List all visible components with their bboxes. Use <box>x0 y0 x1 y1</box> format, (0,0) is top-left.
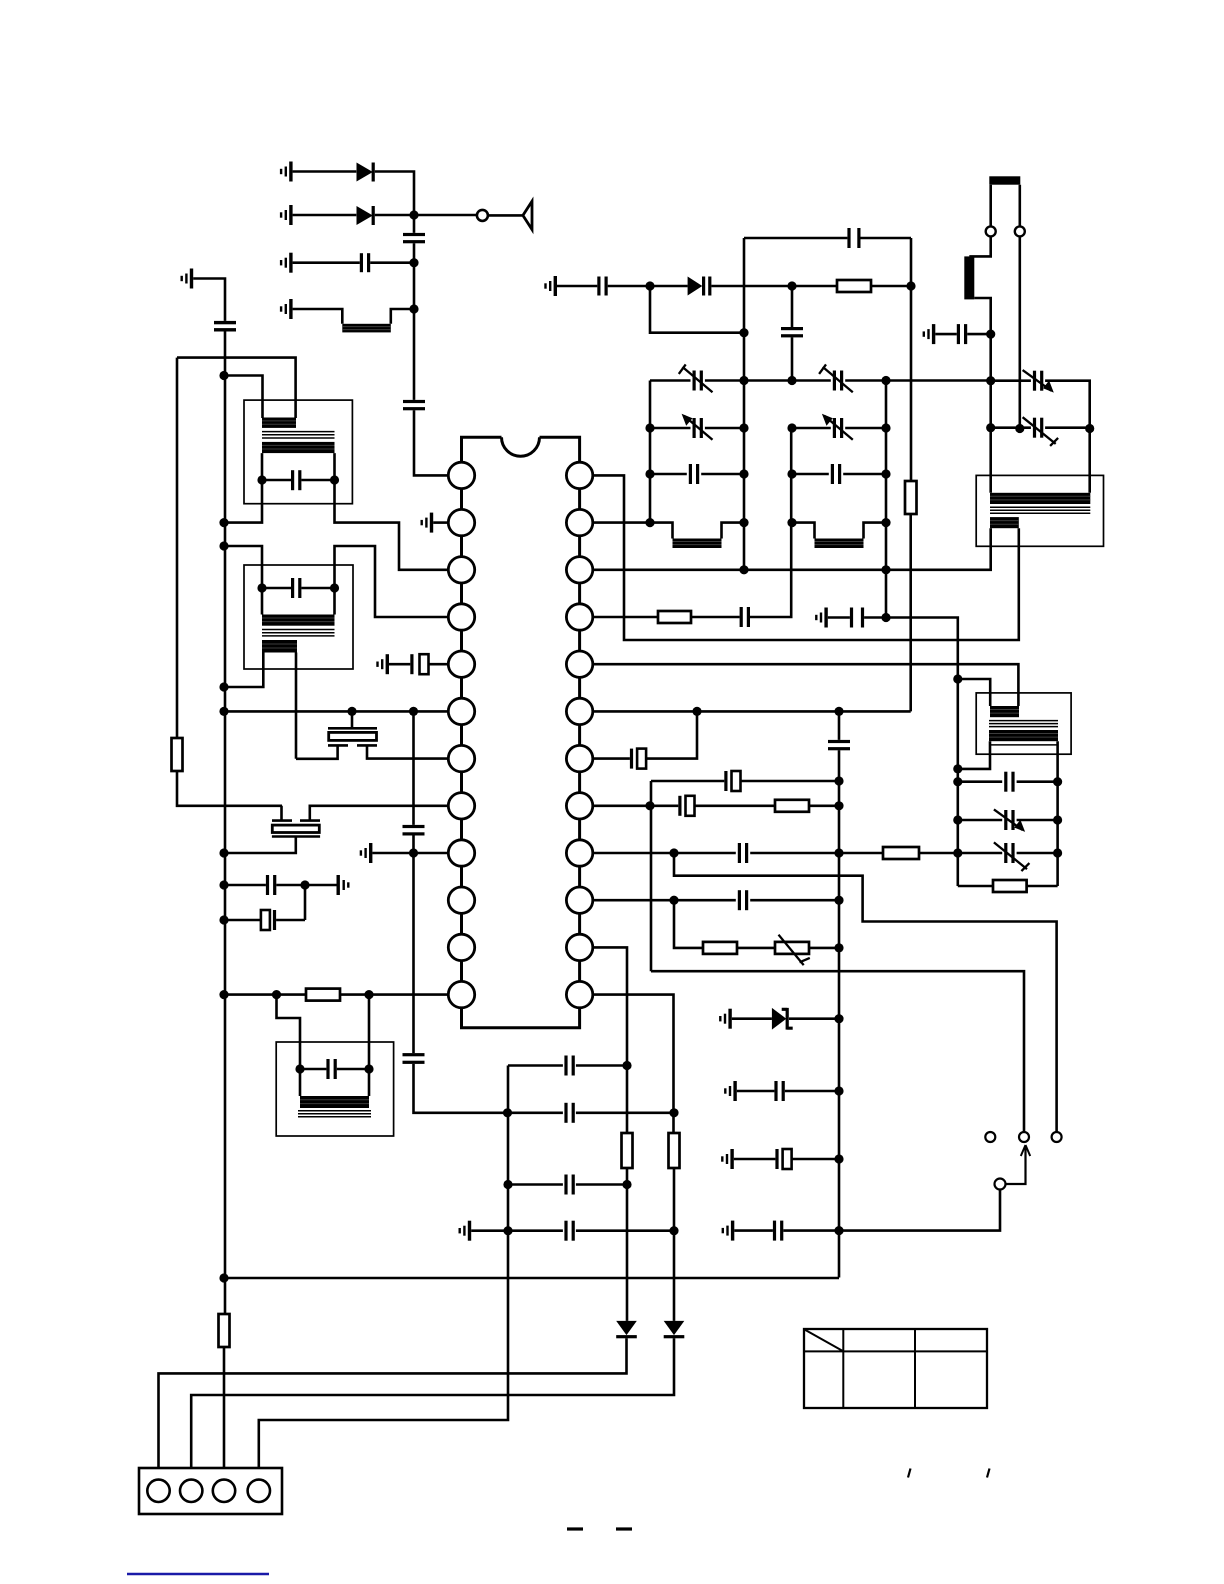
blue underline <box>127 1573 269 1576</box>
wire col911 top <box>910 238 913 481</box>
capacitor C13 row286 <box>597 277 607 296</box>
crystal X2 legs <box>282 806 449 821</box>
IFT3 small coil <box>990 517 1019 528</box>
wire pin5R row <box>593 664 1019 706</box>
wire col744 <box>743 238 746 570</box>
resistor R8 row853 <box>883 847 919 859</box>
trimmer CT6 <box>1023 417 1059 446</box>
wire row286 left <box>557 285 597 288</box>
wire IFT5 stubs <box>300 1069 369 1096</box>
wire G14 to C28 <box>737 1090 775 1093</box>
IFT1 primary coil <box>262 418 296 428</box>
wire IFT1 right out to pin3L <box>335 480 449 570</box>
wire G7 to pin9L <box>372 852 448 855</box>
IFT4 thick winding <box>989 730 1058 745</box>
capacitor C34 rowD <box>564 1221 574 1241</box>
wire col958 <box>956 679 959 886</box>
wire row570 pin3R <box>593 528 991 570</box>
wire row853 right <box>958 852 1058 855</box>
capacitor C2 row3 <box>360 253 370 272</box>
IC U1 body <box>462 437 580 1027</box>
capacitor C21 col839 <box>828 740 850 750</box>
wire col839 cap branch <box>838 711 841 1277</box>
ground G12 row334 <box>923 324 936 344</box>
wire row1278 <box>224 1277 839 1280</box>
wire D3 to connector1 <box>159 1338 627 1479</box>
wire G13 to ZD1 <box>732 1017 772 1020</box>
trimmer CT8 <box>994 842 1030 871</box>
IFT3 thin winding <box>990 507 1090 513</box>
wire G6 to pin2L <box>433 521 448 524</box>
wire col674 lower <box>673 1168 676 1321</box>
crystal X1 <box>328 728 377 745</box>
FM antenna bar <box>989 176 1020 184</box>
wire C20 to col697 <box>646 711 697 758</box>
wire pin8R row <box>593 804 775 807</box>
wire IFT5 left feed <box>277 995 301 1069</box>
ground G2 row2 <box>280 205 293 225</box>
IFT1 secondary thick winding <box>262 442 335 453</box>
zener ZD1 <box>772 1008 793 1030</box>
wire G15 to C29 <box>734 1158 776 1161</box>
capacitor C3 on col414 <box>403 400 425 410</box>
wire IFT1 cap row <box>262 479 335 482</box>
wire row1 to col414 <box>375 172 414 216</box>
wire col224 to connector <box>223 1347 226 1480</box>
IFT5 thick winding <box>300 1096 369 1108</box>
wire C18 to col791 <box>750 428 791 617</box>
capacitor C32 rowB <box>564 1103 574 1123</box>
wire row711 <box>224 710 448 713</box>
capacitor C20 electrolytic pin7R <box>630 749 646 769</box>
wire R9 to RV1 <box>737 947 775 950</box>
ground G7 pin9L <box>360 843 373 863</box>
ground G9 row885 <box>337 875 350 895</box>
wire FM row428 <box>991 426 1090 429</box>
wire node225 to IFT2 <box>225 546 262 588</box>
wire C19 to col958 <box>864 618 958 680</box>
trimmer CT1 <box>679 364 713 392</box>
wire pin12R col674 <box>593 995 674 1133</box>
IFT2 thick winding <box>262 615 335 626</box>
wire G12 to C26 <box>935 333 957 336</box>
diode D2 <box>357 206 375 225</box>
resistor R7 row806 <box>775 800 809 812</box>
capacitor C29 electrolytic row1159 <box>775 1149 791 1169</box>
capacitor C19 row617 <box>850 608 864 628</box>
wire FM row381 <box>991 381 1090 493</box>
resistor R4 row286 <box>837 280 871 292</box>
IFT1 secondary thin winding <box>262 432 335 438</box>
resistor R2 row995 <box>306 989 340 1001</box>
wire IFT2 cap row <box>262 587 335 590</box>
wire col414 seg1 <box>413 215 416 309</box>
capacitor C8 col414 <box>403 1053 425 1064</box>
IFT3 shield box <box>976 475 1103 546</box>
capacitor C26 row334 <box>957 324 967 344</box>
resistor R5 col911 <box>905 481 917 514</box>
wire row781 <box>651 780 839 783</box>
resistor R12 col674 <box>669 1133 680 1168</box>
wire row3 right <box>370 261 414 264</box>
wire row782 <box>958 780 1058 783</box>
wire row995 right <box>340 993 448 996</box>
wire contact2 down <box>1018 236 1021 428</box>
wire D4 to connector2 <box>191 1338 674 1479</box>
capacitor C24 row853 <box>738 843 748 863</box>
IC U1 pins right 24-13 <box>566 462 592 1008</box>
wire col991 segs <box>989 334 992 493</box>
wire coil row tank2 left <box>792 523 815 539</box>
capacitor C7 col414 <box>403 825 425 836</box>
wire row428 tank1 <box>650 427 744 430</box>
mark dash1 <box>567 1527 583 1530</box>
capacitor C10 row885 <box>266 875 276 895</box>
resistor R1 col177 <box>172 738 183 771</box>
diode D3 <box>616 1321 637 1338</box>
wire row2 to jack <box>375 214 477 217</box>
trimmer CT7 arrow <box>994 809 1025 832</box>
wire row995 left <box>224 993 306 996</box>
table <box>804 1329 987 1408</box>
wire pin9R row <box>593 852 883 855</box>
wire row1 <box>293 170 357 173</box>
wire C26 to col991 <box>967 333 991 336</box>
wire X2 bottom stub <box>224 837 296 854</box>
IFT2 thin winding <box>262 630 335 636</box>
wire row1231 to switch arm <box>839 1190 1000 1231</box>
capacitor C25 row901 <box>738 890 748 910</box>
capacitor C4 on col225 <box>214 321 236 332</box>
capacitor C33 rowC <box>564 1175 574 1195</box>
capacitor C12 in IFT5 <box>326 1059 336 1079</box>
ground G6 pin2L <box>421 513 434 533</box>
wire C29 to col839 <box>792 1158 839 1161</box>
wire rowA 1066 <box>508 1064 627 1067</box>
capacitor C16 row474 <box>689 464 699 484</box>
wire R4 to col911 <box>871 285 911 288</box>
IFT4 shield box <box>976 693 1071 754</box>
trimmer CT2 <box>819 364 853 392</box>
wire pin6R row <box>593 710 911 713</box>
connector J1 <box>139 1468 282 1514</box>
ground G13 zener row <box>719 1009 732 1029</box>
wire left rail col177 <box>176 358 179 738</box>
wire IFT4 left out <box>958 741 990 769</box>
ground G10 row286 <box>544 276 557 296</box>
resistor R6 row617 <box>658 611 691 623</box>
mark tick2 <box>987 1469 990 1478</box>
wire pin5R junction col958 <box>958 679 990 706</box>
capacitor C14 col792 <box>781 327 803 337</box>
resistor R3 col224 <box>219 1314 230 1347</box>
node open contact <box>477 210 488 221</box>
wire X1 legs <box>296 745 448 758</box>
IFT3 thick winding <box>990 493 1090 504</box>
wire L2 right <box>722 523 745 539</box>
capacitor C9 electrolytic pin5L <box>410 654 428 674</box>
wire row428 tank2 <box>792 427 886 430</box>
IC U1 pins left 1-12 <box>448 462 474 1008</box>
inductor L1 row4 <box>342 324 391 333</box>
mark dash2 <box>616 1527 632 1530</box>
wire row885 <box>224 884 337 887</box>
ground G15 row1159 <box>721 1149 734 1169</box>
wire varactor to resistor <box>711 285 837 288</box>
wire IFT5 right feed <box>368 995 371 1069</box>
varistor RV1 row948 <box>775 935 810 965</box>
diode D4 <box>664 1321 685 1338</box>
wire G11 to C19 <box>828 616 850 619</box>
wire row474 tank2 <box>792 473 886 476</box>
wire row380 to FM <box>886 379 991 382</box>
ground G11 row617 <box>815 608 828 628</box>
IFT2 shield box <box>244 565 353 669</box>
wire rowC 1185 <box>508 1183 627 1186</box>
node ant contact2 <box>1015 226 1025 236</box>
wire contact1 to coil <box>969 236 990 256</box>
wire rowB 1113 <box>508 1112 675 1115</box>
wire col305 <box>304 885 307 920</box>
wire L4 to col991 <box>974 298 990 334</box>
earphone EP1 <box>523 201 532 229</box>
varactor VD1 <box>688 277 712 296</box>
wire row920 <box>224 919 305 922</box>
wire col674 branch <box>674 900 703 948</box>
wire RV1 to col839 <box>809 947 839 950</box>
wire col508 <box>259 1066 508 1480</box>
resistor R9 row948 <box>703 942 737 954</box>
trimmer CT3 arrow <box>682 414 713 440</box>
ground G3 row3 <box>280 253 293 273</box>
trimmer CT5 arrow <box>1023 370 1054 393</box>
wire rowD 1231 <box>471 1229 674 1232</box>
resistor R11 col627 <box>622 1133 633 1168</box>
capacitor C31 rowA <box>564 1056 574 1076</box>
node switch contact2 <box>1019 1132 1029 1142</box>
wire switch feed poly <box>674 853 1057 1132</box>
capacitor C27 row782 <box>1004 772 1014 792</box>
wire row820 <box>958 819 1058 822</box>
wire IFT1 top link <box>177 358 296 418</box>
node switch arm pivot <box>995 1179 1006 1190</box>
wire IFT2 winding stubs <box>262 588 335 615</box>
capacitor C15 row238 <box>847 228 860 248</box>
IFT4 thin winding <box>989 721 1058 727</box>
node switch contact1 <box>985 1132 995 1142</box>
capacitor C5 in IFT1 <box>291 470 301 490</box>
wire ZD1 to col839 <box>789 1017 839 1020</box>
ground G17 rowD <box>459 1221 472 1241</box>
wire IFT1 winding stubs <box>262 453 335 480</box>
wire G8 to C9 <box>389 663 410 666</box>
wire row380 tank1 <box>650 379 744 382</box>
wire IFT4 right out <box>1056 741 1059 886</box>
wire col414 lower <box>414 853 508 1113</box>
capacitor C18 row617 <box>740 607 750 627</box>
mark tick1 <box>908 1469 911 1478</box>
capacitor C23 electrolytic row806 <box>678 796 694 816</box>
wire col225 rail <box>224 332 227 1315</box>
wire IFT2 right up to pin4L <box>335 546 449 617</box>
wire pin2R coil row <box>593 523 673 539</box>
wire col650 tank1 <box>649 381 652 523</box>
wire col627 lower <box>626 1168 629 1321</box>
wire C9 to pin5L <box>429 663 449 666</box>
capacitor C6 in IFT2 <box>291 578 301 598</box>
wire col651 <box>650 781 653 971</box>
wire col177 to crystal leg <box>177 771 282 806</box>
crystal X1 stub <box>351 711 354 727</box>
capacitor C1 on col414 <box>403 233 425 243</box>
ground G14 row1091 <box>724 1081 737 1101</box>
wire R8 to col958 <box>919 852 958 855</box>
wire antenna legs <box>991 185 1020 227</box>
ground G1 row1 <box>280 162 293 182</box>
wire IFT5 cap row <box>300 1068 369 1071</box>
resistor R10 row886 <box>993 880 1027 892</box>
crystal X2 <box>272 821 320 837</box>
wire top row238 <box>744 237 911 240</box>
wire L3 right <box>864 523 887 539</box>
wire pin7R to C20 <box>593 757 630 760</box>
wire IFT2 small coil right to crystal1 <box>295 653 298 759</box>
wire contact to earphone <box>488 214 522 217</box>
wire col414 seg2 to pin1L <box>414 309 448 475</box>
wire pin4R row <box>593 616 658 619</box>
capacitor C28 row1091 <box>774 1081 784 1101</box>
wire pin11R col627 <box>593 947 627 1133</box>
wire row3 left <box>293 261 360 264</box>
diode D1 <box>357 163 375 182</box>
ground G16 row1230 <box>722 1221 735 1241</box>
wire col886 tank2 <box>885 381 888 618</box>
inductor L3 tank2 <box>815 539 864 549</box>
trimmer CT4 arrow <box>822 414 853 440</box>
wire row474 tank1 <box>650 473 744 476</box>
capacitor C30 row1230 <box>773 1221 783 1241</box>
wire row4 left <box>293 309 343 324</box>
wire C30 to col839 <box>783 1229 839 1232</box>
ground G8 pin5L <box>376 654 389 674</box>
wire IFT1 left out <box>224 480 262 523</box>
ground G5 left <box>181 269 194 289</box>
wire col650 branch <box>650 286 744 333</box>
wire R7 to col839 <box>809 804 839 807</box>
wire row2 <box>293 214 357 217</box>
IFT5 shield box <box>276 1042 393 1136</box>
wire col414 mid <box>412 711 415 853</box>
IFT2 small coil <box>262 640 297 653</box>
IFT5 thin winding <box>298 1111 371 1117</box>
capacitor C22 electrolytic row781 <box>724 771 740 791</box>
capacitor C17 row474 <box>831 464 841 484</box>
wire C28 to col839 <box>785 1090 839 1093</box>
wire node225 to IFT1 coil <box>225 376 263 419</box>
capacitor C11 electrolytic row920 <box>261 910 276 930</box>
inductor L4 FM coil <box>964 256 974 299</box>
switch SW1 arm arrow <box>1006 1145 1031 1184</box>
wire row886 <box>958 885 1058 888</box>
wire pin1R to det coil <box>593 475 1019 640</box>
wire pin10R row <box>593 899 839 902</box>
wire G5 to C4 <box>193 279 225 321</box>
ground G4 row4 <box>280 299 293 319</box>
node ant contact1 <box>986 226 996 236</box>
wire col911 bottom <box>909 514 912 711</box>
wire C13 to node <box>608 285 688 288</box>
wire row380 tank2 <box>744 379 886 382</box>
wire G16 to C30 <box>734 1229 773 1232</box>
IFT1 shield box <box>244 400 352 504</box>
wire col792 <box>791 286 794 381</box>
wire IFT2 small coil left out <box>224 653 263 688</box>
IFT4 small coil <box>990 706 1019 717</box>
wire row971 <box>651 971 1024 1132</box>
node switch contact3 <box>1052 1132 1062 1142</box>
inductor L2 tank1 <box>673 539 722 549</box>
wire R6 to C18 <box>691 616 740 619</box>
wire row4 right <box>391 309 414 324</box>
